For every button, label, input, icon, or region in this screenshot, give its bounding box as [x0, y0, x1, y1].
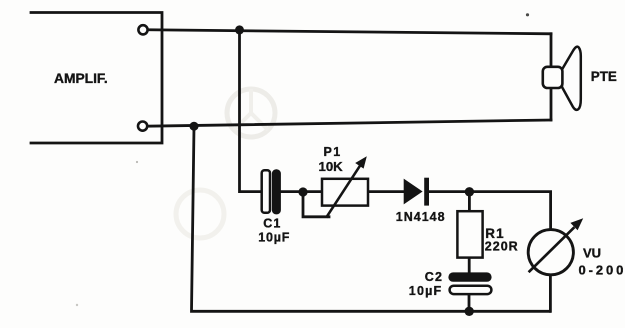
- svg-text:10µF: 10µF: [258, 231, 290, 245]
- svg-text:10µF: 10µF: [409, 284, 443, 298]
- svg-text:220R: 220R: [485, 239, 519, 253]
- svg-text:0-200: 0-200: [579, 263, 625, 278]
- svg-text:10K: 10K: [319, 159, 344, 174]
- svg-text:C2: C2: [425, 270, 443, 284]
- svg-text:PTE: PTE: [591, 69, 617, 84]
- svg-text:C1: C1: [263, 217, 281, 231]
- svg-text:1N4148: 1N4148: [396, 210, 446, 224]
- svg-text:P1: P1: [324, 145, 342, 159]
- svg-text:VU: VU: [583, 246, 601, 261]
- svg-text:AMPLIF.: AMPLIF.: [54, 71, 108, 86]
